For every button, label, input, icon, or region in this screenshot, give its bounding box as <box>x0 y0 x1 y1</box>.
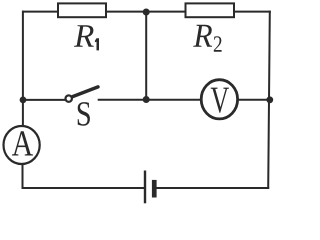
wire bottom left of battery <box>23 187 145 189</box>
label R1 subscript 1 <box>95 38 99 50</box>
switch S pivot circle <box>66 95 72 101</box>
node dot middle <box>143 96 150 103</box>
label S <box>78 102 90 126</box>
node dot left <box>20 97 27 104</box>
switch S lever <box>73 87 98 97</box>
wire top-left segment <box>23 11 58 13</box>
voltmeter U1 circle <box>201 80 237 119</box>
wire middle left of switch <box>23 99 66 101</box>
wire right side <box>268 12 270 188</box>
wire switch to voltmeter <box>99 99 201 101</box>
battery long thin plate <box>144 171 146 204</box>
wire between R1 and R2 <box>106 11 186 13</box>
wire left side upper <box>22 12 24 126</box>
wire right of R2 <box>234 11 270 13</box>
node dot right <box>266 96 273 103</box>
label R1 "R" <box>74 25 94 47</box>
ammeter circle <box>4 126 40 164</box>
ammeter letter A <box>12 131 33 155</box>
resistor R2 <box>186 3 235 17</box>
voltmeter letter V <box>211 88 229 113</box>
wire middle vertical node branch <box>145 12 147 100</box>
node dot top <box>143 9 150 16</box>
wire left side lower <box>22 164 24 188</box>
wire voltmeter to right node <box>238 99 270 101</box>
label R2 "R" <box>193 25 212 47</box>
battery short thick plate <box>152 180 157 198</box>
label R2 subscript 2 <box>214 36 222 52</box>
resistor R1 <box>58 3 106 17</box>
wire bottom right of battery <box>157 187 268 189</box>
